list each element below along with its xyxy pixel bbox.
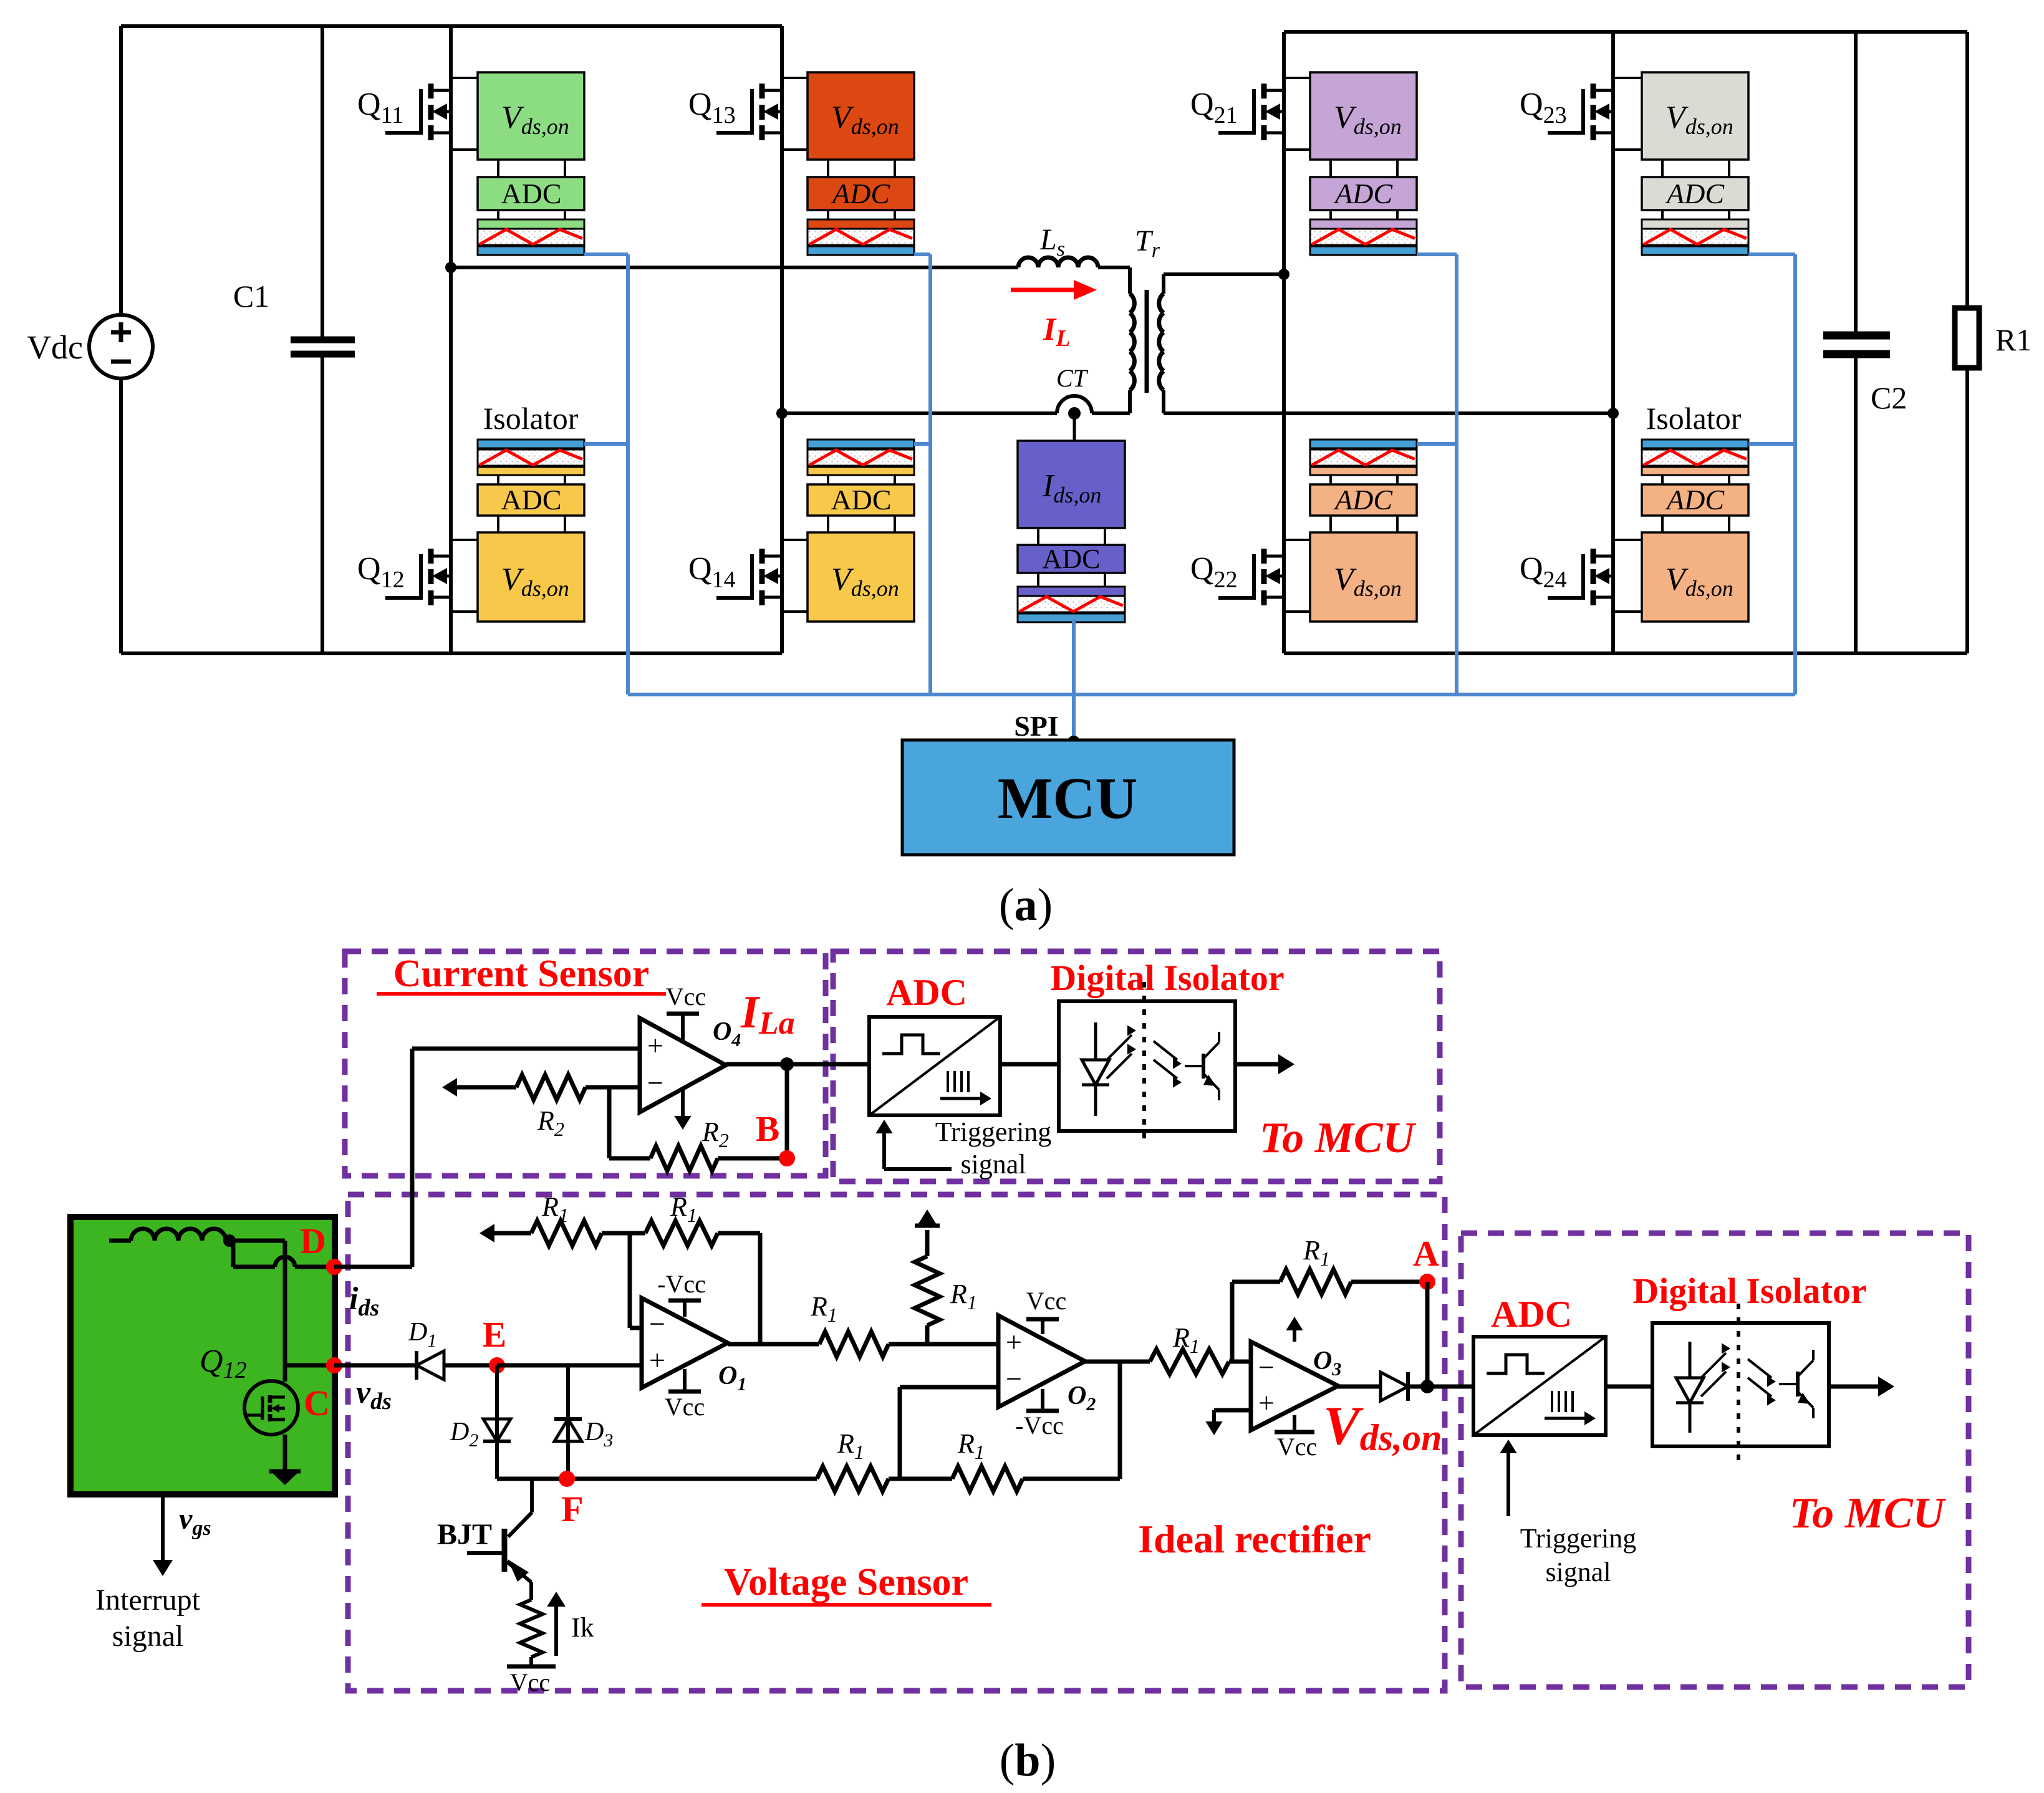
voltage source Vdc [89,315,153,378]
svg-text:ADC: ADC [1043,544,1101,574]
dashed box: Current Sensor [345,951,826,1176]
svg-text:ADC: ADC [501,484,561,516]
ADC converter box (top) [869,1017,1000,1115]
wire: Q13 isolator to bus [914,252,930,256]
digital isolator box (top) [1059,1001,1235,1131]
Ids,on sense block [1018,441,1125,528]
svg-text:Ik: Ik [571,1612,594,1643]
node A [1419,1274,1435,1290]
wire: ADC to isolator (top) [1000,1062,1059,1067]
ADC block [1642,484,1748,516]
wire: E down to D2 [495,1365,499,1479]
ADC trigger arrow (top) [884,1167,952,1171]
op-amp O2 [998,1315,1085,1407]
O4 Vcc [681,1014,685,1040]
wire: secondary return [1164,411,1613,415]
svg-text:ADC: ADC [1333,484,1393,516]
Vds,on sense block [478,72,584,160]
wire: left outer vertical (Vdc branch) [119,26,123,315]
digital isolator block [807,440,914,448]
wire: stubs from leg to Vds,on block [1613,77,1642,79]
wire: bridge1 right leg [780,26,784,653]
svg-text:MCU: MCU [998,766,1138,831]
svg-text:−: − [1258,1352,1275,1383]
svg-text:signal: signal [1545,1557,1611,1587]
svg-text:CT: CT [1056,364,1089,392]
wire: primary return with CT [782,411,1057,415]
ADC block [1310,177,1417,210]
wire: secondary top lead to bridge2 [1164,272,1284,276]
svg-text:To MCU: To MCU [1260,1114,1417,1162]
svg-text:Ideal rectifier: Ideal rectifier [1138,1517,1371,1561]
wire: ADC to isolator [1329,210,1332,219]
svg-text:ADC: ADC [831,484,891,516]
wire: ADC to isolator [1661,210,1664,219]
svg-text:+: + [649,1344,665,1376]
wire: O2 output [1085,1360,1150,1364]
node SPI [1068,736,1080,748]
transformer Tr secondary winding [1162,274,1165,294]
svg-text:Vdc: Vdc [27,329,83,366]
ground arrow (R1 top) [915,1224,940,1228]
wire: Q14 isolator to bus [914,442,930,446]
svg-text:signal: signal [960,1149,1026,1180]
O3 +Vcc arrow (top) [1293,1328,1296,1342]
wire: C to D1 to E [334,1363,417,1368]
wire: bridge1 left leg [449,26,453,653]
svg-text:C1: C1 [233,279,269,314]
vgs interrupt arrow [161,1494,165,1562]
ADC converter box (bottom) [1473,1337,1606,1435]
svg-text:ADC: ADC [1491,1294,1572,1335]
transistor BJT [530,1479,534,1512]
op-amp O1 [642,1298,728,1388]
digital isolator block [1642,440,1748,448]
svg-text:ADC: ADC [501,178,561,209]
wire: stubs from leg to Vds,on block [451,77,478,79]
svg-text:To MCU: To MCU [1790,1489,1947,1537]
ADC block [807,177,914,210]
svg-text:ADC: ADC [1665,484,1725,516]
wire: ADC out to isolator (bottom) [1606,1385,1652,1389]
svg-text:Digital Isolator: Digital Isolator [1050,958,1284,998]
node D [326,1259,342,1275]
resistor R1 (load) [1965,32,1969,308]
diode D3 [566,1365,570,1479]
transistor Q14 [759,549,765,564]
dashed box: bottom ADC + Digital Isolator [1461,1233,1969,1687]
wire: drain to node C [285,1363,334,1368]
wire: ADC to isolator [1037,573,1039,587]
wire: stubs from leg to Vds,on block [1284,77,1310,79]
Vds,on sense block [807,72,914,160]
wire: Q23 isolator to bus [1748,252,1795,256]
wire: ADC to isolator [497,210,499,219]
svg-text:ADC: ADC [1333,178,1393,209]
wire: O1 out [728,1342,819,1347]
svg-text:Interrupt: Interrupt [95,1584,201,1617]
wire: block to ADC [497,160,499,177]
transistor Q22 [1261,549,1267,564]
O4 minus network: R2 input [447,1085,516,1090]
wire: secondary bottom rail [1284,651,1967,655]
svg-text:−: − [647,1067,663,1099]
transformer Tr primary winding [1128,267,1132,294]
wire: O2 feedback via bottom R1s [889,1477,952,1481]
svg-text:E: E [483,1314,507,1355]
svg-text:R1: R1 [1995,322,2032,357]
transistor Q13 [759,84,765,99]
ADC trigger arrow (bottom) [1506,1449,1510,1516]
node B [785,1064,789,1158]
svg-text:Vcc: Vcc [510,1668,550,1696]
svg-text:(b): (b) [1000,1735,1056,1786]
wire: ADC to Vds,on block [1329,516,1332,532]
transformer core [1145,290,1149,393]
O3 plus to ground [1214,1408,1251,1413]
wire: isolator to ADC [1329,475,1332,484]
wire: ADC to Vds,on block [497,516,499,532]
inductor Ls [1018,257,1098,267]
svg-text:−: − [649,1308,665,1340]
node: bridge2 right midpoint [1608,408,1619,419]
wire: block to ADC [1661,160,1664,177]
Vds,on sense block [478,532,584,622]
R2 feedback [607,1087,612,1158]
wire: ADC to Vds,on block [1661,516,1664,532]
digital isolator block [1310,219,1417,229]
svg-text:-Vcc: -Vcc [1015,1411,1064,1440]
wire: E to O1 + [497,1363,640,1368]
Vds,on sense block [1310,532,1417,622]
Vds,on sense block [1642,72,1748,160]
resistor Ik [520,1600,542,1657]
wire: block to ADC [1329,160,1332,177]
wire: isolator to ADC [497,475,499,484]
wire: stubs from leg to Vds,on block [451,539,478,541]
wire: bridge2 right leg [1611,32,1615,653]
transistor Q23 [1591,84,1596,99]
wire: stubs from leg to Vds,on block [1284,539,1310,541]
wire: midpoint to Ls [451,266,1018,269]
svg-text:B: B [756,1108,780,1149]
transistor Q12 (in block) [244,1381,298,1435]
O1 Vcc bottom [683,1369,687,1392]
resistor R1 pull (vertical) [925,1230,930,1256]
svg-text:ADC: ADC [1665,178,1725,209]
wire: D to O4 + input [334,1265,412,1269]
wire: Q21 isolator to bus [1417,252,1457,256]
ADC block [807,484,914,516]
current arrow IL [1011,288,1076,292]
wire: Q24 isolator to bus [1748,442,1795,446]
node: bridge1 right midpoint [776,408,788,419]
svg-text:Voltage Sensor: Voltage Sensor [724,1561,968,1603]
O4 ground arrow [681,1090,685,1117]
digital isolator block [478,440,584,448]
wire: Q22 isolator to bus [1417,442,1457,446]
Vds,on sense block [1642,532,1748,622]
svg-text:A: A [1413,1233,1439,1274]
wire: Ids isolator to MCU [1072,619,1076,742]
O2 -Vcc bottom [1041,1389,1044,1411]
digital isolator block [1310,440,1417,448]
transistor Q24 [1591,549,1596,564]
node: bridge1 left midpoint [445,262,456,273]
svg-text:+: + [1006,1326,1022,1358]
op-amp O3 [1251,1342,1338,1430]
wire: SPI bus horizontal [628,693,1795,696]
wire: isolator output arrow (bottom) [1829,1385,1883,1389]
svg-text:Vcc: Vcc [1026,1287,1066,1315]
green converter block [70,1217,335,1494]
svg-text:-Vcc: -Vcc [657,1270,706,1298]
Vds,on sense block [1310,72,1417,160]
svg-text:D: D [300,1221,326,1261]
O1 -Vcc top [683,1300,687,1317]
wire: isolator to ADC [1661,475,1664,484]
svg-text:ADC: ADC [831,178,890,209]
wire: O2 minus input [900,1385,998,1390]
svg-text:+: + [647,1029,663,1061]
wire: block to ADC [827,160,829,177]
op-amp O4 [640,1018,726,1112]
ADC block (Ids) [1018,545,1125,573]
wire: isolator output arrow (top) [1235,1062,1283,1067]
dashed box: Voltage Sensor [348,1195,1445,1691]
node C [326,1357,342,1373]
wire: primary bottom rail [121,651,782,655]
inductor inside block [131,1229,226,1241]
diode D2 [483,1419,511,1441]
resistor R1 series (O2-O3) [1150,1349,1229,1374]
transistor Q12 [428,549,434,564]
wire: Q12 isolator to bus [584,442,628,446]
svg-text:Digital Isolator: Digital Isolator [1632,1271,1866,1311]
ADC block [1642,177,1748,210]
wire: drain vertical [229,1239,285,1243]
ADC block [478,177,584,210]
svg-text:ADC: ADC [886,972,967,1013]
svg-text:Isolator: Isolator [1646,401,1742,436]
capacitor C1 [321,26,324,337]
wire: O4 output [726,1062,869,1067]
svg-text:Vcc: Vcc [666,983,706,1011]
wire: block to ADC [1037,528,1039,545]
ADC block [1310,484,1417,516]
wire: ADC to isolator [827,210,829,219]
svg-text:Current Sensor: Current Sensor [393,953,649,995]
digital isolator block [478,219,584,229]
svg-text:SPI: SPI [1014,710,1059,742]
dashed box: top ADC + Digital Isolator [833,951,1440,1181]
O3 minus wire [1229,1360,1251,1364]
svg-text:Vcc: Vcc [1277,1433,1317,1461]
transistor Q21 [1261,84,1267,99]
O3 feedback R1 to A [1230,1282,1235,1362]
wire: F rail [497,1477,817,1481]
wire: Ls to transformer primary [1098,266,1130,269]
ground (in block) [269,1469,301,1474]
svg-text:Triggering: Triggering [935,1117,1052,1147]
svg-text:Triggering: Triggering [1520,1523,1637,1554]
O2 Vcc top [1041,1319,1044,1334]
wire: stubs from leg to Vds,on block [782,539,807,541]
digital isolator block [807,219,914,229]
wire: CT to Ids,on block [1073,413,1076,441]
transistor Q11 [428,84,434,99]
digital isolator block [1642,219,1748,229]
svg-text:Isolator: Isolator [483,401,579,436]
wire: secondary top rail [1284,30,1967,34]
digital isolator block (Ids) [1018,587,1125,596]
resistor R1 series (O1-O2) [819,1332,889,1357]
wire: source to ground [283,1435,287,1471]
node E [489,1357,505,1373]
O3 Vcc bottom [1293,1415,1296,1432]
wire: stubs from leg to Vds,on block [1613,539,1642,541]
wire: isolator to ADC [827,475,829,484]
O1 feedback loop [630,1326,640,1330]
svg-text:C2: C2 [1871,380,1907,415]
wire: ADC to Vds,on block [827,516,829,532]
Vds,on sense block [807,532,914,622]
diode D1 [417,1351,444,1380]
Vcc bar (BJT) [507,1665,556,1669]
current transformer CT [1068,407,1081,420]
capacitor C2 [1854,32,1858,334]
Ik arrow [554,1605,558,1656]
wire: bridge2 left leg [1282,32,1286,653]
svg-text:Vcc: Vcc [665,1393,705,1421]
ADC block [478,484,584,516]
wire: primary top rail [121,24,782,28]
svg-text:−: − [1006,1363,1022,1395]
output diode [1338,1385,1381,1389]
node: bridge2 left midpoint [1278,269,1290,280]
svg-text:(a): (a) [999,880,1053,931]
wire: stubs from leg to Vds,on block [782,77,807,79]
svg-text:BJT: BJT [437,1518,492,1551]
svg-text:+: + [1258,1387,1275,1418]
MCU block [902,740,1234,855]
wire: Q11 isolator to bus [584,252,628,256]
digital isolator box (bottom) [1652,1323,1829,1446]
wire: coil to D with CT bump [231,1241,236,1267]
svg-text:C: C [304,1383,330,1423]
svg-text:signal: signal [112,1620,184,1653]
node F [559,1471,575,1487]
svg-text:F: F [561,1489,583,1529]
